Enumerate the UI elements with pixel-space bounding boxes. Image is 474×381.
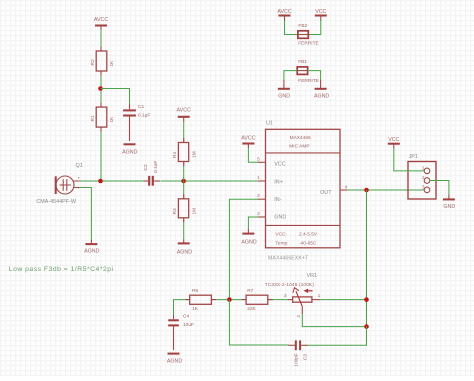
svg-text:2: 2 [296,315,302,318]
ground AGND (under mic) [84,240,99,255]
ground GND (JP1) [443,195,455,210]
svg-text:GND: GND [274,215,286,221]
svg-text:AGND: AGND [122,150,137,156]
node junction R1/R2/C1 [98,86,103,91]
svg-text:VCC:: VCC: [275,232,286,238]
pin 5 stub [257,156,265,162]
svg-text:VCC: VCC [315,9,326,15]
wire FB1 to AGND [307,71,320,81]
op-amp U1 MAX4466 [266,121,341,248]
svg-text:2: 2 [422,175,425,181]
wire node down to C3 [229,300,289,345]
connector JP1 [408,154,436,199]
svg-text:AVCC: AVCC [277,9,291,15]
svg-text:VR1: VR1 [307,273,318,279]
ferrite bead FB2 [298,23,319,47]
svg-text:FERRITE: FERRITE [298,78,319,84]
supply VCC (FB2 right) [315,9,327,21]
resistor R5 [190,288,212,312]
svg-text:IN+: IN+ [274,179,283,185]
svg-text:AGND: AGND [314,94,329,100]
svg-text:FB1: FB1 [298,59,307,65]
ground AGND (under R3) [177,240,192,256]
svg-text:AVCC: AVCC [241,136,255,142]
svg-text:VCC: VCC [388,137,399,143]
microphone Q1 [36,163,82,205]
svg-text:AGND: AGND [241,240,256,246]
supply VCC (JP1) [388,137,400,148]
wire OUT net [347,189,424,191]
wire C2 to IC pin 1 [161,180,258,182]
node junction R5/R7/pin3 [227,297,232,302]
resistor R1 [90,107,115,127]
capacitor C3 [289,340,309,366]
wire R4 to node to R3 [183,162,185,199]
wire VR1 pin2 to node [302,314,366,327]
wire AVCC to FB2 [285,20,299,34]
svg-text:AVCC: AVCC [177,108,191,114]
svg-text:AVCC: AVCC [94,17,108,23]
svg-text:100pF: 100pF [293,353,299,367]
svg-text:MAX4466EXK+T: MAX4466EXK+T [268,256,309,262]
svg-text:2.4-5.5V: 2.4-5.5V [299,232,318,238]
svg-text:1K: 1K [109,60,115,67]
svg-text:0.1µF: 0.1µF [138,113,150,119]
svg-text:1: 1 [318,293,321,299]
wire VCC to JP1 pin1 [394,148,425,171]
wire OUT down to feedback [366,190,368,327]
svg-text:10uF: 10uF [183,322,194,328]
svg-text:R2: R2 [90,59,96,65]
ground GND (FB1 left) [278,80,290,100]
wire R7 to VR1 pin3 [268,299,288,301]
svg-text:22K: 22K [247,306,256,312]
ground AGND (under C4) [167,354,182,365]
svg-text:Q1: Q1 [76,163,83,169]
wire mic- down to AGND [80,188,92,241]
svg-text:VCC: VCC [274,162,285,168]
node junction OUT [364,188,369,193]
svg-text:U1: U1 [266,121,273,127]
svg-text:3: 3 [257,193,260,199]
svg-text:FB2: FB2 [298,23,307,29]
wire FB1 to GND [284,71,298,81]
wire R5 right to node to R7 [211,299,246,301]
svg-text:MIC AMP: MIC AMP [289,143,309,149]
wire R1 to mic node [100,127,102,181]
svg-text:1M: 1M [192,208,198,215]
svg-text:R7: R7 [247,288,253,294]
svg-text:TC33X-2-1046 (100K): TC33X-2-1046 (100K) [265,282,314,288]
wire VCC to FB2 [308,20,321,34]
wire R2 to R1 [100,71,102,107]
svg-text:AGND: AGND [84,249,99,255]
svg-text:C3: C3 [303,354,309,360]
svg-text:1K: 1K [192,306,199,312]
ferrite bead FB1 [297,59,319,84]
wire AVCC to R4 [183,121,185,143]
wire JP1 pin2 to GND [430,181,449,196]
svg-text:GND: GND [278,94,290,100]
wire VR1 pin1 to OUT net [319,299,366,301]
svg-text:R4: R4 [172,152,178,158]
svg-text:R3: R3 [172,208,178,214]
svg-text:CMA-4544PF-W: CMA-4544PF-W [36,199,76,205]
node junction VR1 pin1 [364,297,369,302]
pin 2 stub [257,211,265,217]
svg-text:1M: 1M [192,151,198,158]
supply AVCC (top left) [94,17,108,30]
svg-text:GND: GND [443,204,455,210]
svg-text:R1: R1 [90,115,96,121]
wire AVCC to pin 5 [248,148,258,163]
svg-text:FERRITE: FERRITE [298,41,319,47]
wire mic+ to C2 (main node) [80,180,145,182]
svg-text:IN-: IN- [274,197,281,203]
pin 1 stub [257,175,265,181]
resistor R2 [90,51,115,71]
wire AVCC to R2 [100,30,102,52]
svg-text:1K: 1K [109,116,115,123]
ground AGND (FB1 right) [314,80,329,100]
capacitor C1 [123,104,150,141]
wire red pin stubs overlay [101,47,273,300]
node junction mic/R1 [98,179,103,184]
trimmer VR1 [265,273,321,318]
capacitor C4 [168,313,194,350]
ground AGND (under C1) [122,144,137,155]
resistor R4 [172,143,198,162]
svg-text:AGND: AGND [177,250,192,256]
supply AVCC (IC pin5) [241,136,255,148]
svg-text:5: 5 [257,156,260,162]
svg-text:Low pass F3db = 1/R5*C4*2pi: Low pass F3db = 1/R5*C4*2pi [9,266,114,273]
svg-text:AGND: AGND [167,358,182,364]
svg-text:C4: C4 [183,313,189,319]
resistor R3 [172,199,198,218]
svg-text:JP1: JP1 [409,154,418,160]
pin 4 stub [340,184,348,190]
svg-text:C1: C1 [138,104,144,110]
svg-text:2: 2 [257,211,260,217]
supply AVCC (above R4) [177,108,191,122]
wire C3 right to node [307,326,367,345]
svg-text:Temp:: Temp: [275,241,288,247]
svg-text:C2: C2 [143,164,149,170]
svg-text:1: 1 [257,175,260,181]
wire R3 to AGND [183,218,185,240]
supply AVCC (FB2 left) [277,9,291,21]
wire junction to C1 [101,89,130,106]
wire pin 2 to AGND [248,217,258,230]
wire R5 left to C4 [174,300,191,316]
svg-text:OUT: OUT [320,190,332,196]
node junction pin2/C3 [364,324,369,329]
pin 3 stub [257,193,265,199]
svg-text:0.1uF: 0.1uF [153,161,159,173]
svg-text:3: 3 [284,293,287,299]
wire pin 3 to bottom node [229,199,258,299]
capacitor C2 [143,161,160,186]
svg-text:-40-85C: -40-85C [299,241,317,247]
svg-text:3: 3 [422,184,425,190]
svg-text:R5: R5 [192,288,198,294]
ground AGND (IC pin2) [241,229,256,246]
svg-text:MAX4466: MAX4466 [290,135,311,141]
resistor R7 [246,288,268,312]
node junction R4/R3/pin1 [181,179,186,184]
